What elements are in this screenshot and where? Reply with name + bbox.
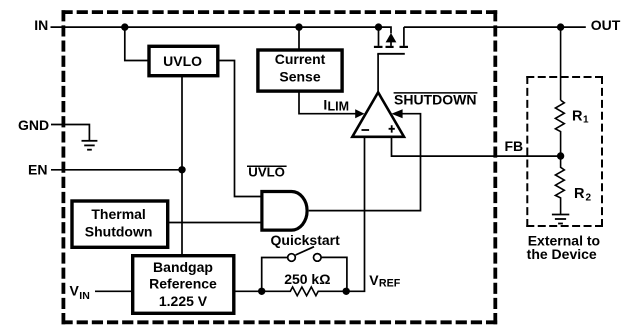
svg-text:IN: IN	[79, 290, 90, 302]
svg-text:REF: REF	[379, 277, 401, 289]
wire IN to UVLO	[125, 27, 148, 60]
wire VIN to bandgap	[95, 290, 132, 292]
node junction resistor / switch / VREF	[343, 288, 350, 295]
UVLO block	[149, 46, 218, 75]
wire IN to Current Sense	[298, 27, 300, 49]
Thermal Shutdown block	[72, 201, 168, 247]
svg-text:IN: IN	[34, 17, 48, 33]
svg-text:Quickstart: Quickstart	[271, 232, 341, 248]
pin label FB	[505, 138, 524, 154]
wire amplifier non-inverting input to FB	[392, 137, 561, 156]
svg-text:V: V	[369, 272, 379, 288]
node junction IN rail to UVLO	[121, 23, 128, 30]
svg-text:FB: FB	[505, 138, 524, 154]
resistor 250 kOhm	[262, 271, 347, 296]
node junction OUT / divider	[557, 23, 564, 30]
wire EN lead	[51, 169, 182, 171]
pin label IN	[34, 17, 48, 33]
wire SHUTDOWN from AND gate output	[309, 114, 421, 211]
svg-text:the Device: the Device	[527, 246, 597, 262]
pin label EN	[28, 162, 47, 178]
wire VREF node to amplifier inverting input	[346, 137, 364, 291]
node junction FB / divider tap	[557, 152, 564, 159]
node junction bandgap output / switch	[258, 288, 265, 295]
arrowhead ILIM into amplifier	[355, 109, 364, 118]
wire bandgap output	[235, 290, 262, 292]
svg-text:2: 2	[586, 192, 592, 203]
svg-text:Shutdown: Shutdown	[85, 223, 153, 239]
Bandgap Reference block	[133, 256, 234, 314]
svg-text:SHUTDOWN: SHUTDOWN	[394, 91, 476, 107]
wire IN rail	[51, 26, 379, 28]
svg-text:Sense: Sense	[279, 69, 320, 85]
label ILIM	[323, 97, 349, 114]
wire Current Sense to ILIM input	[299, 92, 356, 114]
Current Sense block	[258, 50, 342, 91]
pin label OUT	[591, 17, 621, 33]
pin label VIN	[70, 283, 90, 303]
wire GND lead	[51, 125, 89, 141]
svg-text:EN: EN	[28, 162, 47, 178]
svg-text:UVLO: UVLO	[163, 53, 202, 69]
external dashed boundary	[526, 76, 603, 227]
pass transistor Q1 (PMOS)	[374, 27, 408, 54]
wire Thermal Shutdown to AND gate bottom input	[169, 222, 261, 224]
svg-text:V: V	[70, 283, 80, 299]
svg-text:OUT: OUT	[591, 17, 621, 33]
resistor R2	[555, 156, 591, 214]
svg-text:250 kΩ: 250 kΩ	[284, 271, 330, 287]
resistor R1	[555, 100, 589, 156]
label UVLO (active low, overbar) at AND input	[247, 165, 287, 180]
error amplifier U1	[352, 92, 404, 137]
svg-text:Reference: Reference	[149, 276, 217, 292]
wire UVLO output to AND gate top input	[219, 61, 261, 197]
svg-text:R: R	[572, 108, 583, 124]
ground symbol below R2	[552, 215, 569, 224]
main IC dashed boundary	[62, 10, 498, 324]
node junction IN rail / Q1 source	[375, 23, 382, 30]
label SHUTDOWN (active low, overbar)	[394, 91, 478, 107]
wire OUT rail	[404, 26, 586, 28]
pin label GND	[18, 117, 49, 133]
arrowhead SHUTDOWN into amplifier	[391, 109, 402, 118]
svg-text:1: 1	[583, 115, 589, 126]
ground symbol at GND pin	[82, 141, 98, 150]
svg-text:LIM: LIM	[328, 99, 350, 113]
quickstart switch S1	[262, 247, 347, 292]
wire UVLO bottom to bandgap (vertical bus)	[181, 76, 183, 256]
svg-text:1.225 V: 1.225 V	[159, 293, 208, 309]
svg-text:R: R	[574, 186, 585, 202]
svg-text:Thermal: Thermal	[91, 206, 145, 222]
svg-text:Current: Current	[275, 51, 326, 67]
wire OUT to R1	[560, 27, 562, 100]
label VREF	[369, 272, 400, 289]
wire Q1 gate to amplifier output	[377, 54, 379, 92]
label External to the Device	[527, 232, 600, 262]
label Quickstart	[271, 232, 341, 248]
node junction IN rail to Current Sense	[295, 23, 302, 30]
AND gate (quickstart enable)	[262, 192, 307, 231]
svg-text:Bandgap: Bandgap	[153, 259, 213, 275]
svg-text:GND: GND	[18, 117, 49, 133]
node junction EN / vertical bus	[178, 166, 185, 173]
